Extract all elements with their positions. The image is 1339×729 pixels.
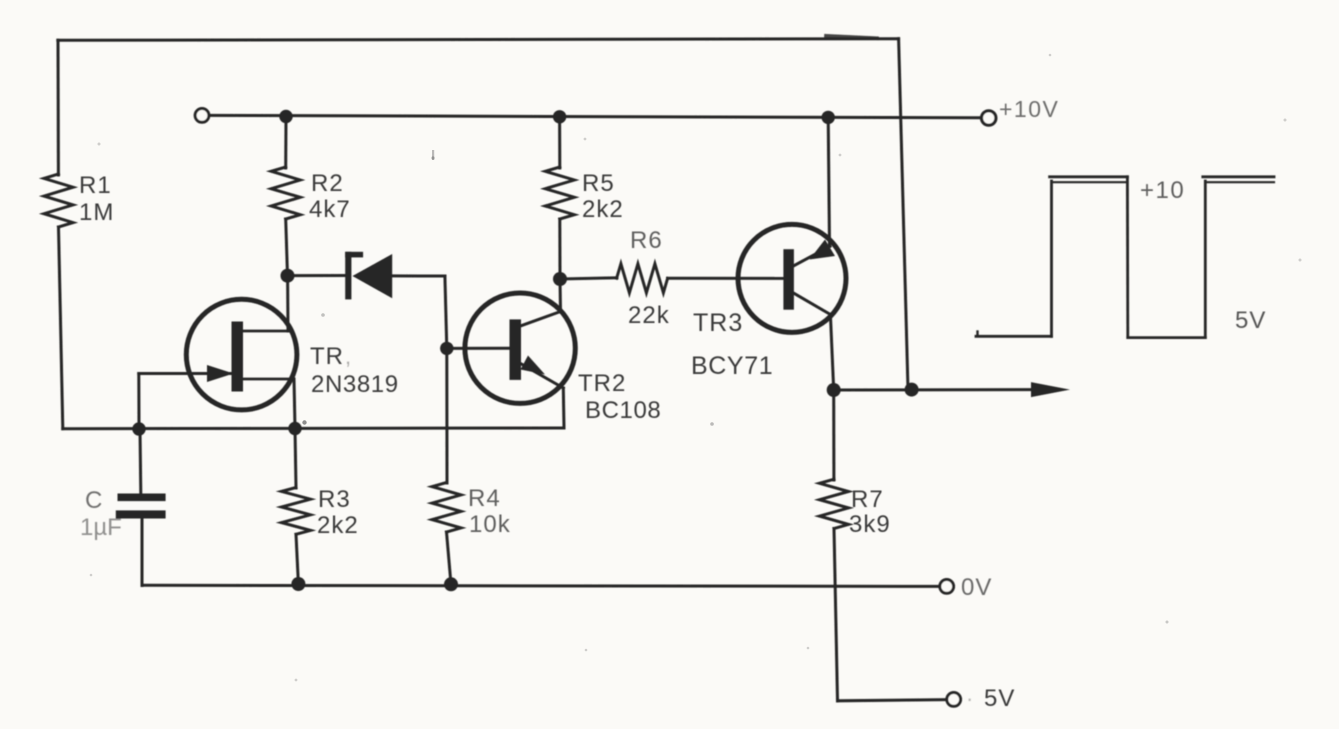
terminal +10V right open circle [982, 111, 996, 125]
wire TR2 base lead [447, 347, 510, 350]
wire -5V horizontal lead [838, 700, 947, 701]
svg-text:,: , [345, 344, 351, 369]
waveform top 2 inner line [1205, 181, 1274, 183]
output arrowhead [1031, 382, 1070, 397]
svg-text:C: C [85, 487, 102, 514]
TR1 gate arrowhead [207, 365, 234, 382]
diode D1 cathode bar [345, 252, 351, 300]
svg-text:2k2: 2k2 [317, 512, 359, 539]
svg-text:·: · [966, 686, 973, 711]
node R4 bottom junction [444, 577, 458, 591]
svg-text:R5: R5 [582, 170, 615, 197]
node R5 bottom / R6 / TR2 collector junction [553, 272, 567, 286]
TR2 emitter arrowhead [521, 356, 546, 375]
wire R6 right lead (TR3 base) [668, 277, 784, 280]
svg-text:+10: +10 [1140, 177, 1185, 204]
waveform rising edge 1 [1050, 181, 1053, 336]
waveform start tick [976, 332, 978, 337]
wire R6 left lead [560, 278, 617, 279]
svg-text:R3: R3 [318, 486, 351, 513]
wire R4 bottom lead [447, 532, 452, 584]
wire TR3 emitter lead up [828, 117, 829, 246]
wire TR2 base to R4 vertical [445, 348, 448, 483]
wire TR1 gate riser [137, 374, 140, 430]
terminal 0V open circle [940, 580, 954, 594]
wire top feedback rail [58, 39, 899, 41]
transistor TR1 channel bar [232, 322, 244, 392]
wire TR3 emitter diagonal [793, 246, 831, 266]
diode D1 cathode top tick [345, 252, 363, 258]
wire TR3 collector diagonal [793, 292, 831, 314]
scan speckles [90, 54, 1302, 682]
wire TR1 drain internal [243, 330, 288, 333]
svg-text:R1: R1 [79, 172, 112, 199]
wire left vertical upper (top rail to R1) [57, 40, 60, 175]
wire R2 bottom lead [286, 219, 288, 276]
svg-text:2k2: 2k2 [582, 196, 624, 223]
wire diode cathode lead [288, 274, 346, 277]
diode D1 anode triangle [353, 254, 393, 298]
svg-text:1M: 1M [79, 199, 114, 226]
wire R2 top lead [284, 117, 287, 169]
resistor R7 zigzag [820, 479, 849, 528]
waveform falling edge 1 [1126, 177, 1129, 338]
transistor TR3 circle [738, 224, 846, 332]
resistor R2 zigzag [271, 167, 300, 219]
wire TR1 source internal [243, 378, 294, 381]
terminal +10V rail left open circle [195, 109, 209, 123]
wire TR1 gate lead [139, 372, 232, 375]
wire R7 bottom lead to -5V [834, 529, 838, 701]
svg-text:22k: 22k [628, 302, 670, 329]
svg-text:TR: TR [310, 343, 344, 370]
wire TR2 collector diagonal [519, 312, 561, 327]
wire left vertical lower (R1 to gate line) [59, 227, 63, 429]
resistor R3 top lead [295, 429, 296, 489]
svg-text:0V: 0V [961, 574, 992, 601]
capacitor C bottom plate [116, 510, 166, 518]
svg-text:2N3819: 2N3819 [311, 371, 399, 398]
svg-text:R6: R6 [630, 227, 663, 254]
wire R7 top lead [832, 390, 835, 480]
wire capacitor bottom lead [141, 519, 144, 586]
wire TR2 emitter lead down [562, 388, 566, 428]
svg-text:R4: R4 [468, 485, 501, 512]
svg-text:4k7: 4k7 [309, 196, 351, 223]
wire gate-source horizontal bus [63, 427, 564, 431]
wire TR2 emitter diagonal [519, 363, 563, 388]
resistor R1 zigzag [44, 174, 73, 227]
node TR2 base junction [440, 342, 453, 355]
svg-text:TR3: TR3 [693, 309, 743, 337]
waveform low segment 2 [1128, 336, 1206, 339]
wire 0V rail [142, 585, 940, 586]
svg-text:BCY71: BCY71 [691, 352, 773, 380]
svg-text:5V: 5V [1235, 307, 1266, 334]
node TR1 source / R3 junction [288, 422, 301, 435]
node feedback / output junction [905, 383, 919, 397]
svg-text:TR2: TR2 [578, 370, 626, 397]
terminal -5V open circle [947, 693, 961, 707]
TR3 emitter arrowhead [810, 240, 836, 260]
svg-text:+10V: +10V [999, 96, 1059, 122]
wire R5 bottom lead [558, 219, 561, 279]
waveform top 1 outer line [1050, 175, 1128, 178]
waveform rising edge 2 [1204, 181, 1207, 338]
transistor TR1 circle [186, 299, 297, 410]
wire R3 bottom lead [296, 534, 298, 584]
wire diode anode to TR2 base vertical [445, 276, 447, 348]
wire TR3 collector lead down [830, 315, 833, 391]
capacitor C top plate [118, 494, 166, 502]
svg-text:5V: 5V [984, 685, 1015, 712]
svg-text:10k: 10k [469, 511, 511, 538]
svg-text:R2: R2 [311, 170, 344, 197]
waveform top 2 outer line [1203, 175, 1274, 178]
node TR3 collector rail junction [822, 111, 835, 124]
wire output line [834, 388, 1033, 391]
wire TR1 source lead down [294, 379, 295, 429]
svg-text:R7: R7 [851, 486, 884, 513]
node R2 top junction [279, 110, 292, 123]
wire TR2 collector lead up [559, 279, 563, 312]
resistor R5 zigzag [545, 167, 574, 219]
transistor TR3 base bar [783, 249, 794, 310]
waveform top 1 inner line [1052, 181, 1126, 183]
wire TR1 drain lead up [286, 276, 289, 331]
wire +10V supply rail [209, 115, 980, 117]
waveform low segment 1 [976, 335, 1052, 338]
transistor TR2 base bar [510, 319, 522, 380]
transistor TR2 circle [465, 293, 575, 403]
node gate / capacitor junction [132, 422, 145, 435]
node TR3 collector / output junction [827, 383, 841, 397]
wire R5 top lead [558, 117, 561, 168]
svg-text:1µF: 1µF [80, 514, 122, 541]
resistor R3 zigzag [282, 488, 311, 535]
wire capacitor top lead [139, 429, 143, 494]
node R2 bottom / diode cathode junction [281, 269, 295, 283]
node R5 top junction [553, 110, 566, 123]
resistor R4 zigzag [432, 483, 461, 533]
smudge artifact on top wire [826, 36, 877, 38]
wire diode anode lead [392, 274, 445, 277]
svg-text:3k9: 3k9 [849, 511, 891, 538]
wire right vertical feedback (top rail to output node) [899, 39, 908, 390]
resistor R6 zigzag [617, 264, 668, 293]
node R3 bottom junction [291, 577, 305, 591]
svg-text:BC108: BC108 [585, 397, 661, 424]
